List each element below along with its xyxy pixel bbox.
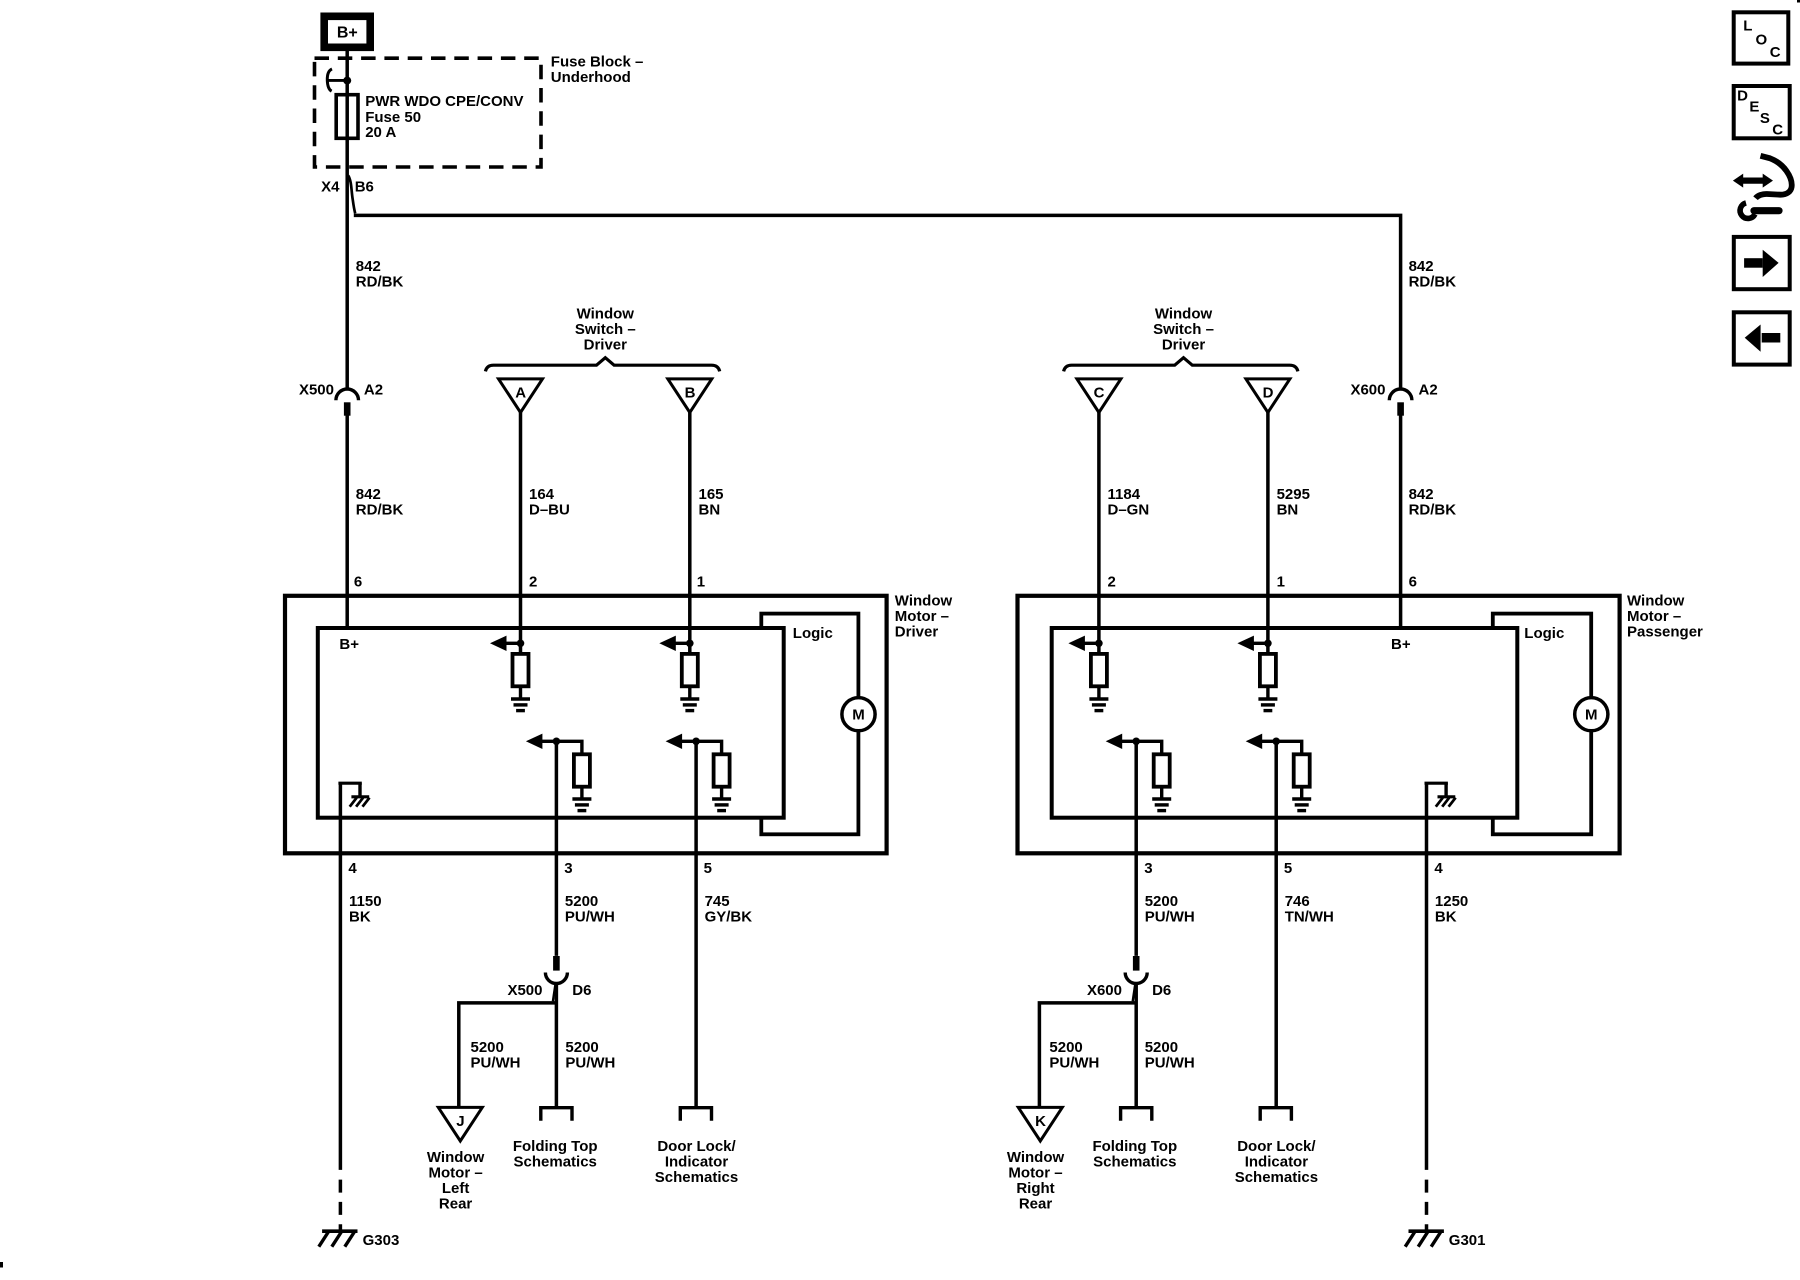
svg-text:Motor –: Motor – <box>1008 1164 1062 1181</box>
svg-text:M: M <box>852 707 865 724</box>
svg-text:X4: X4 <box>321 178 340 195</box>
wire resistor to ground pin5 <box>720 787 723 799</box>
resistor pin3 (driver) <box>574 754 590 786</box>
connector X500 A2 inline connector <box>336 389 359 416</box>
svg-text:C: C <box>1094 384 1105 401</box>
svg-text:5295: 5295 <box>1277 486 1310 503</box>
wire pin2 down to node (passenger) <box>1097 626 1101 655</box>
svg-text:M: M <box>1585 707 1598 724</box>
wire resistor to ground pin3 <box>580 787 583 799</box>
svg-text:Rear: Rear <box>1019 1195 1053 1212</box>
svg-text:PWR WDO CPE/CONV: PWR WDO CPE/CONV <box>365 93 523 110</box>
svg-text:Window: Window <box>1155 305 1213 322</box>
svg-text:Logic: Logic <box>793 625 833 642</box>
nav icon back arrow box <box>1734 312 1790 364</box>
window motor driver name label <box>895 592 953 640</box>
svg-text:5: 5 <box>704 860 712 877</box>
junction dot at fuse input <box>343 77 351 85</box>
svg-text:Door Lock/: Door Lock/ <box>1237 1138 1316 1155</box>
svg-text:A: A <box>515 384 526 401</box>
fuse block underhood dashed box <box>315 58 542 167</box>
battery feed B+ box <box>324 16 370 47</box>
svg-text:PU/WH: PU/WH <box>471 1054 521 1071</box>
wire 1184 D-GN terminal C to motor pin 2 <box>1097 412 1101 629</box>
chassis ground symbol inside driver motor <box>338 783 369 807</box>
svg-text:D–BU: D–BU <box>529 501 570 518</box>
svg-text:Switch –: Switch – <box>575 321 636 338</box>
svg-text:PU/WH: PU/WH <box>565 1054 615 1071</box>
junction node pin2 (passenger) <box>1095 640 1103 648</box>
junction node pin5 (driver) <box>692 738 700 746</box>
junction node pin5 (passenger) <box>1272 738 1280 746</box>
folding top schematics label (right) <box>1092 1138 1177 1171</box>
svg-text:D6: D6 <box>572 982 591 999</box>
junction node pin1 <box>686 640 694 648</box>
wire resistor to ground pin3 (passenger) <box>1160 787 1163 799</box>
wire label 842 RD/BK (right of bus) <box>1409 258 1457 291</box>
wire pin1 down to node (passenger) <box>1266 626 1270 655</box>
svg-text:Motor –: Motor – <box>429 1164 483 1181</box>
resistor pin5 (driver) <box>714 754 730 786</box>
off-page bracket folding top (left) <box>541 1108 572 1121</box>
wire B+ to X500 (vertical feed, circuit 842) <box>345 51 349 390</box>
switch terminal D triangle <box>1246 379 1290 413</box>
fuse PWR WDO CPE/CONV 50 body <box>336 95 358 139</box>
svg-text:4: 4 <box>348 860 357 877</box>
svg-text:Right: Right <box>1016 1180 1054 1197</box>
arrow to logic pin2 <box>490 636 521 651</box>
svg-text:Logic: Logic <box>1524 625 1564 642</box>
svg-text:GY/BK: GY/BK <box>705 908 753 925</box>
wire 842 RD/BK horizontal bus to X600 <box>354 215 1401 390</box>
switch terminal A triangle <box>499 379 543 413</box>
wire label 842 RD/BK (right mid) <box>1409 486 1457 519</box>
logic box (passenger) <box>1493 614 1591 835</box>
ground G301 chassis symbol <box>1405 1231 1444 1247</box>
arrow to logic pin1 <box>659 636 690 651</box>
svg-text:RD/BK: RD/BK <box>356 501 404 518</box>
off-page bracket door lock (right) <box>1260 1108 1291 1121</box>
svg-text:RD/BK: RD/BK <box>356 274 404 291</box>
svg-text:D–GN: D–GN <box>1108 501 1150 518</box>
svg-text:A2: A2 <box>1419 381 1438 398</box>
logic box (driver) <box>761 614 858 835</box>
svg-text:BK: BK <box>349 908 371 925</box>
ground symbol pin5 (passenger) <box>1292 799 1311 811</box>
brace over switch terminals C/D <box>1064 358 1298 372</box>
svg-text:C: C <box>1772 122 1783 139</box>
arrow to logic pin5 (passenger) <box>1246 734 1277 749</box>
svg-text:X600: X600 <box>1087 982 1122 999</box>
wire 164 D-BU terminal A to motor pin 2 <box>519 412 523 629</box>
ground symbol pin2 (passenger) <box>1089 699 1108 711</box>
wire resistor to ground pin2 (passenger) <box>1097 686 1100 698</box>
svg-text:E: E <box>1749 99 1759 116</box>
arrow to logic pin3 (passenger) <box>1106 734 1137 749</box>
svg-text:C: C <box>1770 44 1781 61</box>
svg-text:BN: BN <box>699 501 721 518</box>
svg-text:1150: 1150 <box>349 893 382 910</box>
svg-text:G303: G303 <box>363 1232 400 1249</box>
svg-text:6: 6 <box>1409 573 1417 590</box>
junction node pin1 (passenger) <box>1264 640 1272 648</box>
wire pin3 node to X600 D6 (circuit 5200) <box>1134 741 1138 956</box>
svg-text:4: 4 <box>1434 860 1443 877</box>
svg-text:A2: A2 <box>364 381 383 398</box>
svg-text:RD/BK: RD/BK <box>1409 274 1457 291</box>
svg-text:3: 3 <box>564 860 572 877</box>
svg-text:Driver: Driver <box>584 336 628 353</box>
svg-text:L: L <box>1743 18 1752 35</box>
wire pin2 down to node (driver) <box>519 626 523 655</box>
wire resistor to ground pin5 (passenger) <box>1300 787 1303 799</box>
splice squiggle below X600 D6 <box>1133 985 1136 1002</box>
arrow to logic pin1 (passenger) <box>1237 636 1268 651</box>
svg-text:PU/WH: PU/WH <box>565 908 615 925</box>
svg-text:Driver: Driver <box>895 623 939 640</box>
wire resistor to ground pin1 <box>688 686 691 698</box>
window switch driver label (right) <box>1153 305 1214 353</box>
fuse element hook <box>327 69 345 91</box>
svg-text:Window: Window <box>427 1149 485 1166</box>
junction node pin3 (passenger) <box>1132 738 1140 746</box>
resistor pin1 (passenger) <box>1260 654 1276 686</box>
svg-text:Schematics: Schematics <box>655 1169 738 1186</box>
resistor pin2 (driver) <box>513 654 529 686</box>
svg-text:5200: 5200 <box>471 1039 504 1056</box>
svg-text:BN: BN <box>1277 501 1299 518</box>
window motor right rear label <box>1007 1149 1065 1213</box>
brace over switch terminals A/B <box>485 358 719 372</box>
svg-text:X500: X500 <box>299 381 334 398</box>
svg-text:5200: 5200 <box>1049 1039 1082 1056</box>
svg-text:D6: D6 <box>1152 982 1171 999</box>
wire 165 BN terminal B to motor pin 1 <box>688 412 692 629</box>
svg-text:Door Lock/: Door Lock/ <box>657 1138 736 1155</box>
branch wire to window motor right rear <box>1039 1003 1136 1107</box>
svg-text:S: S <box>1760 110 1770 127</box>
connector branch squiggle at X4/B6 <box>348 176 355 214</box>
wire X500 D6 to folding top bracket <box>555 983 559 1108</box>
svg-text:5: 5 <box>1284 860 1292 877</box>
door lock indicator schematics label (left) <box>655 1138 738 1186</box>
wire 842 RD/BK X600 to motor pin 6 (right) <box>1399 415 1403 628</box>
wire resistor to ground pin1 (passenger) <box>1266 686 1269 698</box>
motor internal box (passenger) <box>1052 628 1518 818</box>
svg-text:2: 2 <box>1108 573 1116 590</box>
wire pin1 down to node (driver) <box>688 626 692 655</box>
svg-text:Passenger: Passenger <box>1627 623 1703 640</box>
branch wire node to resistor pin5 <box>696 741 722 755</box>
svg-text:Motor –: Motor – <box>1627 608 1681 625</box>
svg-text:5200: 5200 <box>565 1039 598 1056</box>
wire pin5 node to door lock bracket (circuit 746) <box>1274 741 1278 1108</box>
wire label 5200 PU/WH (right section right branch) <box>1145 1039 1195 1072</box>
dashed wire to G303 <box>339 1180 343 1231</box>
svg-text:Schematics: Schematics <box>1235 1169 1318 1186</box>
branch wire to window motor left rear <box>459 1003 557 1107</box>
wire 842 RD/BK X500 to motor pin 6 <box>345 415 349 628</box>
ground symbol pin2 (driver) <box>511 699 530 711</box>
wire label 746 TN/WH <box>1285 893 1334 926</box>
svg-text:K: K <box>1035 1113 1046 1130</box>
ground symbol pin1 (passenger) <box>1258 699 1277 711</box>
svg-text:B: B <box>685 384 696 401</box>
svg-text:B+: B+ <box>339 636 359 653</box>
window motor passenger name label <box>1627 592 1703 640</box>
svg-text:PU/WH: PU/WH <box>1145 908 1195 925</box>
svg-text:745: 745 <box>705 893 730 910</box>
wire label 745 GY/BK <box>705 893 753 926</box>
motor M circle (passenger) <box>1575 698 1608 731</box>
page edge speck bottom left <box>0 1262 3 1268</box>
svg-text:BK: BK <box>1435 908 1457 925</box>
ground symbol pin3 (passenger) <box>1152 799 1171 811</box>
junction node pin2 <box>517 640 525 648</box>
svg-text:746: 746 <box>1285 893 1310 910</box>
svg-text:Window: Window <box>1627 592 1685 609</box>
svg-text:Fuse Block –: Fuse Block – <box>551 54 644 71</box>
nav icon DESC box <box>1734 86 1790 139</box>
wire pin5 node to door lock bracket (circuit 745) <box>694 741 698 1108</box>
resistor pin2 (passenger) <box>1091 654 1107 686</box>
svg-text:Rear: Rear <box>439 1195 473 1212</box>
svg-text:5200: 5200 <box>565 893 598 910</box>
window switch driver label (left) <box>575 305 636 353</box>
wire label 5200 PU/WH (left branch) <box>471 1039 521 1072</box>
branch wire node to resistor pin3 <box>556 741 582 755</box>
wire label 1150 BK <box>349 893 382 926</box>
wire label 1250 BK <box>1435 893 1468 926</box>
nav icon forward arrow box <box>1734 237 1790 289</box>
svg-text:X600: X600 <box>1350 381 1385 398</box>
ground symbol pin1 (driver) <box>680 699 699 711</box>
svg-text:842: 842 <box>1409 486 1434 503</box>
svg-text:842: 842 <box>356 258 381 275</box>
junction node pin3 (driver) <box>553 738 561 746</box>
motor M circle (driver) <box>842 698 875 731</box>
wire label 5200 PU/WH (right section left branch) <box>1049 1039 1099 1072</box>
terminal J triangle to window motor left rear <box>438 1107 482 1141</box>
svg-text:842: 842 <box>356 486 381 503</box>
connector X600 A2 inline connector <box>1389 389 1412 416</box>
fuse block name label <box>551 54 644 87</box>
wire 5295 BN terminal D to motor pin 1 <box>1266 412 1270 629</box>
switch terminal C triangle <box>1077 379 1121 413</box>
svg-text:Schematics: Schematics <box>1093 1153 1176 1170</box>
svg-text:1184: 1184 <box>1108 486 1141 503</box>
svg-text:6: 6 <box>354 573 362 590</box>
connector X600 D6 inline connector <box>1125 956 1147 984</box>
svg-text:3: 3 <box>1144 860 1152 877</box>
wire resistor to ground pin2 <box>519 686 522 698</box>
door lock indicator schematics label (right) <box>1235 1138 1318 1186</box>
arrow to logic pin3 (driver) <box>526 734 557 749</box>
splice squiggle below X500 D6 <box>553 985 556 1002</box>
connector X500 D6 inline connector <box>545 956 567 984</box>
switch terminal B triangle <box>668 379 712 413</box>
off-page bracket folding top (right) <box>1121 1108 1152 1121</box>
wire label 164 D-BU <box>529 486 570 519</box>
svg-text:J: J <box>456 1113 464 1130</box>
svg-text:Motor –: Motor – <box>895 608 949 625</box>
svg-text:B6: B6 <box>355 178 374 195</box>
svg-text:B+: B+ <box>1391 636 1411 653</box>
ground symbol pin3 (driver) <box>572 799 591 811</box>
page edge speck top right <box>1797 0 1800 3</box>
svg-text:D: D <box>1737 87 1748 104</box>
wire X600 D6 to folding top bracket (right) <box>1134 983 1138 1108</box>
svg-text:Indicator: Indicator <box>1245 1153 1309 1170</box>
arrow to logic pin2 (passenger) <box>1068 636 1099 651</box>
wire label 842 RD/BK (left of bus) <box>356 258 404 291</box>
svg-text:Window: Window <box>577 305 635 322</box>
wire label 5295 BN <box>1277 486 1310 519</box>
ground G303 chassis symbol <box>319 1231 358 1247</box>
arrow to logic pin5 (driver) <box>666 734 697 749</box>
svg-text:Underhood: Underhood <box>551 69 631 86</box>
svg-text:Schematics: Schematics <box>514 1153 597 1170</box>
window motor left rear label <box>427 1149 485 1213</box>
svg-text:1: 1 <box>1277 573 1285 590</box>
branch wire node to resistor pin3 (passenger) <box>1136 741 1162 755</box>
nav icon LOC box <box>1734 12 1789 63</box>
wire label 5200 PU/WH (pin3) <box>565 893 615 926</box>
wire label 1184 D-GN <box>1108 486 1150 519</box>
svg-text:X500: X500 <box>507 982 542 999</box>
chassis ground symbol inside passenger motor <box>1425 783 1456 807</box>
svg-text:Switch –: Switch – <box>1153 321 1214 338</box>
svg-text:Left: Left <box>442 1180 470 1197</box>
dashed wire to G301 <box>1425 1180 1429 1231</box>
svg-text:B+: B+ <box>337 25 358 42</box>
svg-text:PU/WH: PU/WH <box>1145 1054 1195 1071</box>
svg-text:1: 1 <box>697 573 705 590</box>
svg-text:Folding Top: Folding Top <box>1092 1138 1177 1155</box>
terminal K triangle to window motor right rear <box>1018 1107 1062 1141</box>
svg-text:Indicator: Indicator <box>665 1153 729 1170</box>
svg-text:1250: 1250 <box>1435 893 1468 910</box>
resistor pin5 (passenger) <box>1294 754 1310 786</box>
svg-text:5200: 5200 <box>1145 893 1178 910</box>
resistor pin1 (driver) <box>682 654 698 686</box>
svg-text:PU/WH: PU/WH <box>1049 1054 1099 1071</box>
svg-text:842: 842 <box>1409 258 1434 275</box>
svg-text:20 A: 20 A <box>365 124 396 141</box>
nav icon jump wrench <box>1733 156 1792 219</box>
svg-text:D: D <box>1263 384 1274 401</box>
svg-text:5200: 5200 <box>1145 1039 1178 1056</box>
svg-text:Driver: Driver <box>1162 336 1206 353</box>
wire label 165 BN <box>699 486 724 519</box>
svg-text:RD/BK: RD/BK <box>1409 501 1457 518</box>
svg-text:2: 2 <box>529 573 537 590</box>
wire pin3 node to X500 D6 (circuit 5200) <box>555 741 559 956</box>
svg-text:O: O <box>1756 31 1768 48</box>
window motor driver outer box <box>285 596 887 854</box>
off-page bracket door lock (left) <box>680 1108 711 1121</box>
resistor pin3 (passenger) <box>1154 754 1170 786</box>
svg-text:G301: G301 <box>1449 1232 1486 1249</box>
svg-text:Window: Window <box>895 592 953 609</box>
window motor passenger outer box <box>1018 596 1620 854</box>
wire label 5200 PU/WH (right branch) <box>565 1039 615 1072</box>
ground symbol pin5 (driver) <box>712 799 731 811</box>
svg-text:Folding Top: Folding Top <box>513 1138 598 1155</box>
svg-text:Window: Window <box>1007 1149 1065 1166</box>
branch wire node to resistor pin5 (passenger) <box>1276 741 1302 755</box>
svg-text:165: 165 <box>699 486 724 503</box>
wire pin4 from chassis ground down (driver) <box>339 783 343 1170</box>
wire through fuse <box>345 94 349 139</box>
svg-text:164: 164 <box>529 486 555 503</box>
wire pin4 from chassis ground down (passenger) <box>1425 783 1429 1170</box>
folding top schematics label (left) <box>513 1138 598 1171</box>
wire label 842 RD/BK (mid) <box>356 486 404 519</box>
wire label 5200 PU/WH (passenger pin3) <box>1145 893 1195 926</box>
motor internal box (driver) <box>318 628 784 818</box>
svg-text:TN/WH: TN/WH <box>1285 908 1334 925</box>
